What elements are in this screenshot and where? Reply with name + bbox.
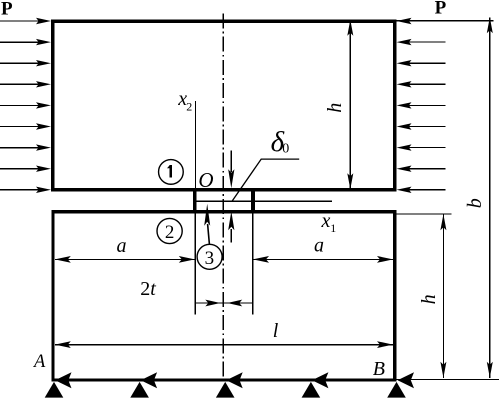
l dimension line bbox=[55, 341, 393, 348]
left pressure arrow 8 bbox=[0, 166, 51, 172]
h dimension line lower plate bbox=[440, 214, 446, 378]
lower plate body 2 outline bbox=[53, 212, 395, 380]
support friction arrow 3 bbox=[226, 372, 243, 388]
right pressure arrow 3 bbox=[397, 60, 446, 66]
balloon 1 upper plate bbox=[159, 160, 184, 185]
svg-text:2t: 2t bbox=[140, 278, 156, 300]
x1 axis line bbox=[193, 200, 332, 202]
h top extension line lower plate bbox=[397, 213, 452, 215]
b top extension line bbox=[397, 20, 494, 22]
svg-text:P: P bbox=[435, 0, 447, 18]
balloon 3 leader arrow bbox=[204, 204, 210, 244]
svg-text:B: B bbox=[373, 358, 385, 380]
left pressure arrow 5 bbox=[0, 102, 51, 108]
left pressure arrow 7 bbox=[0, 144, 51, 150]
svg-text:a: a bbox=[117, 235, 127, 257]
extension line below shim right (2t) bbox=[252, 213, 254, 314]
a dimension line right bbox=[253, 256, 393, 263]
svg-text:l: l bbox=[273, 320, 279, 342]
svg-text:h: h bbox=[324, 103, 346, 113]
left pressure arrow 6 bbox=[0, 123, 51, 129]
right pressure arrow 5 bbox=[397, 102, 446, 108]
svg-text:2: 2 bbox=[186, 100, 192, 114]
svg-text:h: h bbox=[418, 294, 440, 304]
h dimension line upper plate bbox=[347, 20, 353, 189]
shim left edge wall bbox=[193, 188, 196, 213]
right pressure arrow 4 bbox=[397, 81, 446, 87]
support friction arrow 4 bbox=[312, 372, 329, 388]
delta0 leader line bbox=[232, 159, 299, 201]
svg-text:b: b bbox=[464, 198, 486, 208]
right pressure arrow 6 bbox=[397, 123, 446, 129]
roller support 1 bbox=[45, 382, 64, 398]
b bottom extension line bbox=[397, 379, 500, 381]
svg-text:P: P bbox=[1, 0, 13, 20]
a dimension line left bbox=[55, 256, 195, 263]
svg-text:3: 3 bbox=[205, 248, 215, 269]
svg-text:a: a bbox=[314, 234, 324, 256]
svg-text:1: 1 bbox=[330, 221, 336, 235]
delta0 upper arrow bbox=[228, 151, 234, 189]
b dimension line bbox=[487, 17, 493, 378]
balloon 2 lower plate bbox=[157, 218, 182, 243]
support friction arrow 2 bbox=[141, 372, 158, 388]
right pressure arrow 7 bbox=[397, 144, 446, 150]
vertical centerline dash-dot bbox=[222, 14, 224, 382]
svg-text:0: 0 bbox=[282, 141, 289, 156]
roller support 4 bbox=[302, 382, 321, 398]
left pressure arrow 4 bbox=[0, 81, 51, 87]
right pressure arrow 2 bbox=[397, 39, 446, 45]
2t dimension line with inward arrows bbox=[195, 300, 252, 307]
right pressure arrow 8 bbox=[397, 166, 446, 172]
left pressure arrow 2 bbox=[0, 39, 51, 45]
shim right edge wall bbox=[251, 188, 255, 213]
support friction arrow 1 bbox=[55, 372, 72, 388]
balloon 3 shim bbox=[197, 244, 222, 269]
left pressure arrow 9 bbox=[0, 187, 51, 193]
support friction arrow 5 bbox=[398, 372, 415, 388]
svg-text:O: O bbox=[198, 168, 213, 192]
upper plate body 1 outline bbox=[53, 21, 395, 189]
roller support 3 bbox=[216, 382, 235, 398]
left pressure arrow 1 bbox=[0, 18, 51, 24]
delta0 lower arrow bbox=[228, 211, 234, 242]
extension line below shim left (2t) bbox=[194, 213, 196, 314]
roller support 5 bbox=[387, 382, 406, 398]
svg-text:x: x bbox=[321, 210, 331, 232]
roller support 2 bbox=[130, 382, 149, 398]
svg-text:A: A bbox=[32, 352, 46, 372]
svg-text:2: 2 bbox=[165, 222, 175, 243]
right pressure arrow 9 bbox=[397, 187, 446, 193]
left pressure arrow 3 bbox=[0, 60, 51, 66]
x2 axis line bbox=[194, 101, 196, 188]
right pressure arrow 1 bbox=[397, 18, 490, 24]
